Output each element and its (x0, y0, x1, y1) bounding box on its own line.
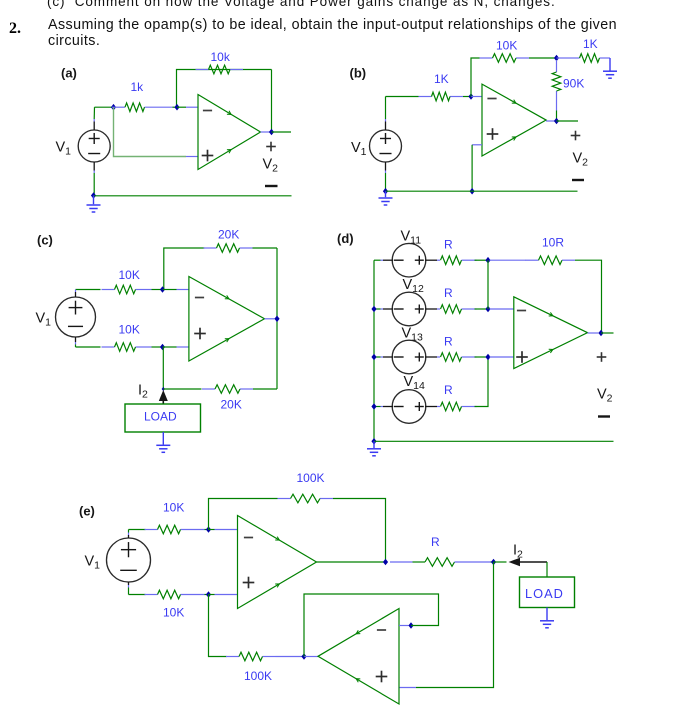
resistor R11 10R (d) (526, 256, 576, 265)
wire lead inverting (b) (471, 96, 482, 98)
minus marker U2 (b) (487, 98, 496, 100)
label 90K (b) (563, 77, 584, 91)
wire lead inverting (a) (177, 106, 198, 108)
voltage source V12 (d) (392, 292, 426, 326)
node fb (b) (554, 55, 559, 62)
node noninverting (c) (160, 344, 165, 351)
resistor R row1 (d) (441, 256, 477, 265)
wire bottom rail (d) (374, 440, 614, 442)
question number (9, 20, 21, 38)
circuit label (d) (337, 231, 354, 246)
label 10K bottom (e) (163, 606, 184, 620)
svg-text:10K: 10K (119, 268, 140, 282)
label - output (b) (572, 179, 584, 181)
wire feedback up (b) (471, 58, 480, 97)
ground top right (b) (603, 71, 617, 78)
wire node down (e) (416, 562, 494, 688)
svg-text:20K: 20K (218, 228, 239, 242)
wire to node top (e) (205, 529, 209, 531)
label V1 (e) (85, 554, 101, 572)
ground (d) (367, 441, 381, 456)
label R row3 (d) (444, 335, 453, 349)
svg-text:10R: 10R (542, 236, 564, 250)
wire lead noninverting (c) (163, 346, 189, 348)
resistor R8 10K top (c) (102, 285, 152, 294)
wire to node (b) (463, 96, 471, 98)
wire V1 top pin (a) (93, 107, 95, 130)
svg-text:V1: V1 (36, 311, 52, 329)
resistor R row3 (d) (441, 353, 477, 362)
op-amp U3 (c) (189, 277, 265, 362)
svg-text:100K: 100K (244, 669, 272, 683)
svg-text:I2: I2 (513, 543, 523, 561)
node A (a) (111, 104, 116, 111)
resistor R7 20K top (c) (204, 244, 253, 253)
wire V13 right pin (d) (425, 356, 440, 358)
wire fb right (e) (333, 499, 386, 563)
node output (a) (269, 129, 274, 136)
label V2 (d) (597, 387, 613, 405)
svg-text:100K: 100K (297, 471, 325, 485)
wire to ground (b) (609, 58, 611, 71)
wire lead noninverting (e) (209, 594, 238, 596)
label 10K top (e) (163, 501, 184, 515)
resistor R2 1k (a) (112, 103, 173, 112)
wire feedback bottom (c) (163, 388, 201, 390)
wire 90K to output (b) (556, 103, 558, 121)
wire R to node row1 (d) (475, 259, 489, 261)
svg-text:V11: V11 (401, 229, 422, 247)
wire lead noninverting U6 (e) (399, 687, 416, 689)
wire fb top right (c) (253, 247, 278, 249)
resistor R16 100K bottom (e) (226, 652, 276, 661)
node inverting (b) (468, 93, 473, 100)
svg-text:(a): (a) (61, 66, 77, 81)
wire output lead (a) (261, 131, 272, 133)
wire lead inverting (c) (163, 289, 189, 291)
label V2 (a) (263, 157, 279, 175)
node bus row4 (d) (371, 403, 376, 410)
wire bottom rail (a) (94, 195, 292, 197)
node output U5 (e) (383, 559, 388, 566)
wire output lead (d) (588, 332, 599, 334)
label 1K top right (b) (583, 37, 598, 51)
wire noninverting (b) (472, 145, 482, 191)
op-amp U1 (a) (198, 95, 261, 170)
op-amp U6 (e) (318, 609, 399, 705)
resistor R13 100K fb (e) (278, 494, 334, 503)
node output (d) (598, 330, 603, 337)
voltage source V14 (d) (392, 390, 426, 424)
plus marker U6 (e) (376, 671, 388, 683)
wire lead inverting U6 (e) (399, 625, 409, 627)
wire bottom rail (b) (386, 190, 578, 192)
wire to noninv node (c) (152, 346, 163, 348)
wire lead noninverting (d) (490, 356, 514, 358)
label V1 (a) (56, 140, 72, 158)
ground (e) (540, 621, 554, 628)
svg-text:LOAD: LOAD (144, 410, 177, 424)
svg-text:R: R (444, 383, 453, 397)
label 10k (211, 50, 231, 64)
voltage source V1 (a) (78, 130, 110, 162)
resistor R12 10K top (e) (145, 525, 205, 534)
svg-text:V14: V14 (404, 374, 426, 392)
svg-text:1K: 1K (583, 37, 598, 51)
circuit label (c) (37, 233, 53, 248)
node bottom junction (b) (470, 188, 475, 195)
svg-text:V12: V12 (403, 277, 425, 295)
svg-text:V1: V1 (85, 554, 101, 572)
current arrow I2 (c) (159, 390, 168, 404)
label 10K bottom (c) (119, 323, 140, 337)
label V2 (b) (573, 151, 589, 169)
question text (48, 17, 617, 49)
resistor R row4 (d) (441, 402, 477, 411)
wire V11 right pin (d) (425, 259, 440, 261)
minus marker U6 (e) (377, 629, 386, 631)
label 10R (d) (542, 236, 564, 250)
minus marker U4 (d) (517, 310, 526, 312)
node output (b) (554, 118, 559, 125)
svg-text:V13: V13 (402, 326, 424, 344)
node row2 inverting (d) (485, 306, 490, 313)
svg-text:V1: V1 (351, 140, 367, 158)
wire rows join (d) (487, 260, 489, 309)
voltage source V1 (b) (370, 130, 402, 162)
resistor R row2 (d) (441, 305, 477, 314)
load box (e) (520, 577, 575, 608)
node row1 (d) (485, 257, 490, 264)
wire feedback top (a) (177, 70, 272, 108)
wire feedback right (a) (271, 70, 273, 133)
wire input bottom (c) (76, 346, 101, 348)
resistor R6 90K (b) (552, 60, 561, 103)
op-amp U4 (d) (514, 297, 588, 369)
wire output (e) (317, 561, 386, 563)
wire to inv node (c) (152, 289, 163, 291)
label 1K (b) (434, 72, 449, 86)
label 100K fb (e) (297, 471, 325, 485)
ground (c) (156, 445, 170, 452)
wire output (b) (557, 120, 579, 122)
minus marker U5 (e) (244, 537, 253, 539)
label LOAD (c) (144, 410, 177, 424)
wire to out node U6 (e) (276, 656, 305, 658)
wire input top (e) (129, 529, 146, 531)
plus marker U5 (e) (243, 577, 255, 589)
wire feedback top (c) (164, 248, 205, 290)
svg-text:10K: 10K (163, 501, 184, 515)
label V12 (d) (403, 277, 425, 295)
wire V1 bottom pin (c) (75, 337, 77, 347)
wire feedback (d) (490, 259, 527, 261)
resistor R14 10K bottom (e) (145, 590, 205, 599)
current arrow I2 (e) (509, 558, 548, 566)
node output (c) (274, 316, 279, 323)
label 10K (b) (496, 39, 517, 53)
svg-text:1K: 1K (434, 72, 449, 86)
wire output lead2 (e) (390, 561, 413, 563)
wire fb to node (b) (529, 57, 557, 59)
node load junction (c) (162, 387, 165, 391)
label 100K bottom (e) (244, 669, 272, 683)
plus marker U2 (b) (487, 128, 499, 140)
node load junction (e) (491, 559, 496, 566)
circuit label (a) (61, 66, 77, 81)
wire V1 bottom pin (a) (93, 162, 95, 196)
node ground (b) (383, 188, 388, 195)
circuit label (e) (79, 504, 95, 519)
node inverting (c) (160, 286, 165, 293)
node bus row3 (d) (371, 354, 376, 361)
wire R to node (e) (455, 561, 494, 563)
svg-text:R: R (444, 286, 453, 300)
plus marker U1 (a) (202, 150, 214, 162)
svg-text:20K: 20K (221, 398, 242, 412)
voltage source V13 (d) (392, 340, 426, 374)
label V13 (d) (402, 326, 424, 344)
label I2 (c) (138, 383, 148, 401)
wire lead noninverting (a) (186, 156, 198, 158)
svg-text:(b): (b) (350, 66, 367, 81)
label I2 (e) (513, 543, 523, 561)
node ground (d) (371, 438, 376, 445)
ground (a) (87, 196, 101, 213)
wire fb right (d) (575, 260, 602, 333)
wire arrow down (e) (546, 562, 548, 577)
wire lead inverting (d) (490, 308, 514, 310)
label + output (a) (266, 142, 276, 152)
wire noninverting path (a) (114, 107, 187, 156)
svg-text:(c): (c) (37, 233, 53, 248)
wire load to ground (e) (546, 608, 548, 621)
wire R to node row3 (d) (475, 356, 489, 358)
label - output (a) (265, 185, 278, 187)
wire output lead (c) (265, 318, 275, 320)
label V1 (b) (351, 140, 367, 158)
label 20K top (c) (218, 228, 239, 242)
node inverting (e) (206, 526, 211, 533)
wire V1 bottom pin (b) (385, 162, 387, 191)
cut-off text line at top (47, 0, 556, 9)
wire feedback up (e) (209, 499, 278, 530)
wire V12 left pin (d) (374, 308, 393, 310)
load box (c) (125, 404, 201, 432)
svg-text:R: R (444, 238, 453, 252)
label + output (b) (571, 131, 581, 141)
wire input top (a) (95, 106, 114, 108)
voltage source V1 (c) (56, 297, 96, 337)
resistor R5 1K (b) (567, 54, 611, 63)
node output U6 (e) (301, 653, 306, 660)
wire feedback right (c) (276, 248, 278, 389)
op-amp U5 (e) (238, 516, 317, 609)
svg-text:(d): (d) (337, 231, 354, 246)
svg-text:10k: 10k (211, 50, 231, 64)
resistor R10 20K bottom (c) (202, 385, 253, 394)
label V14 (d) (404, 374, 426, 392)
resistor R15 R (e) (413, 558, 455, 567)
node bus row2 (d) (371, 306, 376, 313)
svg-text:V2: V2 (263, 157, 279, 175)
wire noninv chain down (e) (209, 595, 227, 657)
plus marker U4 (d) (516, 351, 528, 363)
node noninverting (e) (206, 591, 211, 598)
minus marker U1 (a) (203, 110, 212, 112)
wire input (b) (386, 96, 419, 98)
resistor R1 10k (a) (196, 65, 244, 74)
voltage source V1 (e) (107, 538, 151, 582)
label 1k (131, 80, 145, 94)
wire V11 left pin (d) (374, 259, 393, 261)
label R row2 (d) (444, 286, 453, 300)
svg-text:10K: 10K (163, 606, 184, 620)
svg-text:V1: V1 (56, 140, 72, 158)
wire output lead U6 (e) (304, 656, 318, 658)
wire output (d) (601, 332, 614, 334)
resistor R3 1K (b) (419, 92, 464, 101)
svg-text:R: R (431, 535, 440, 549)
wire V13 left pin (d) (374, 356, 393, 358)
label R (e) (431, 535, 440, 549)
svg-text:R: R (444, 335, 453, 349)
resistor R4 10K (b) (480, 54, 530, 63)
wire load to ground (c) (162, 432, 164, 445)
minus marker U3 (c) (195, 297, 204, 299)
svg-text:10K: 10K (119, 323, 140, 337)
voltage source V11 (d) (392, 243, 426, 277)
svg-text:10K: 10K (496, 39, 517, 53)
node inv U6 (e) (408, 622, 413, 629)
wire V1 bottom pin (e) (128, 582, 130, 595)
wire noninv down (c) (162, 347, 164, 389)
label V1 (c) (36, 311, 52, 329)
svg-text:90K: 90K (563, 77, 584, 91)
label R row4 (d) (444, 383, 453, 397)
wire output (a) (272, 131, 292, 133)
wire V1 top pin (e) (128, 530, 130, 539)
op-amp U2 (b) (482, 84, 546, 156)
wire R to node row2 (d) (475, 308, 489, 310)
label V11 (d) (401, 229, 422, 247)
plus marker U3 (c) (194, 328, 206, 340)
wire V12 right pin (d) (425, 308, 440, 310)
label 20K bottom (c) (221, 398, 242, 412)
resistor R9 10K bottom (c) (102, 343, 152, 352)
svg-text:V2: V2 (597, 387, 613, 405)
wire to arrow (e) (494, 561, 507, 563)
label LOAD (e) (525, 586, 564, 601)
wire to inverting input (a) (173, 106, 178, 108)
wire fb bottom right (c) (253, 388, 277, 390)
label 10K top (c) (119, 268, 140, 282)
svg-text:I2: I2 (138, 383, 148, 401)
label + output (d) (597, 352, 607, 362)
label - output (d) (598, 415, 610, 417)
wire lead inverting (e) (209, 529, 238, 531)
ground (b) (379, 191, 393, 205)
node ground (a) (91, 192, 96, 199)
wire input top (c) (76, 289, 101, 291)
wire V1 top pin (c) (75, 290, 77, 298)
node B (a) (174, 104, 179, 111)
wire fb loop U6 (e) (304, 594, 439, 657)
node row3 noninverting (d) (485, 354, 490, 361)
wire node to 1K (b) (557, 57, 567, 59)
wire left bus (d) (373, 260, 375, 441)
label R row1 (d) (444, 238, 453, 252)
wire output lead (b) (546, 120, 556, 122)
wire R row4 up (d) (475, 357, 489, 407)
wire V14 right pin (d) (425, 406, 440, 408)
wire to node bottom (e) (205, 594, 209, 596)
svg-text:LOAD: LOAD (525, 586, 564, 601)
svg-text:1k: 1k (131, 80, 145, 94)
wire V1 top pin (b) (385, 97, 387, 131)
wire V14 left pin (d) (374, 406, 393, 408)
svg-text:(e): (e) (79, 504, 95, 519)
circuit label (b) (350, 66, 367, 81)
svg-text:V2: V2 (573, 151, 589, 169)
wire input bottom (e) (129, 594, 146, 596)
